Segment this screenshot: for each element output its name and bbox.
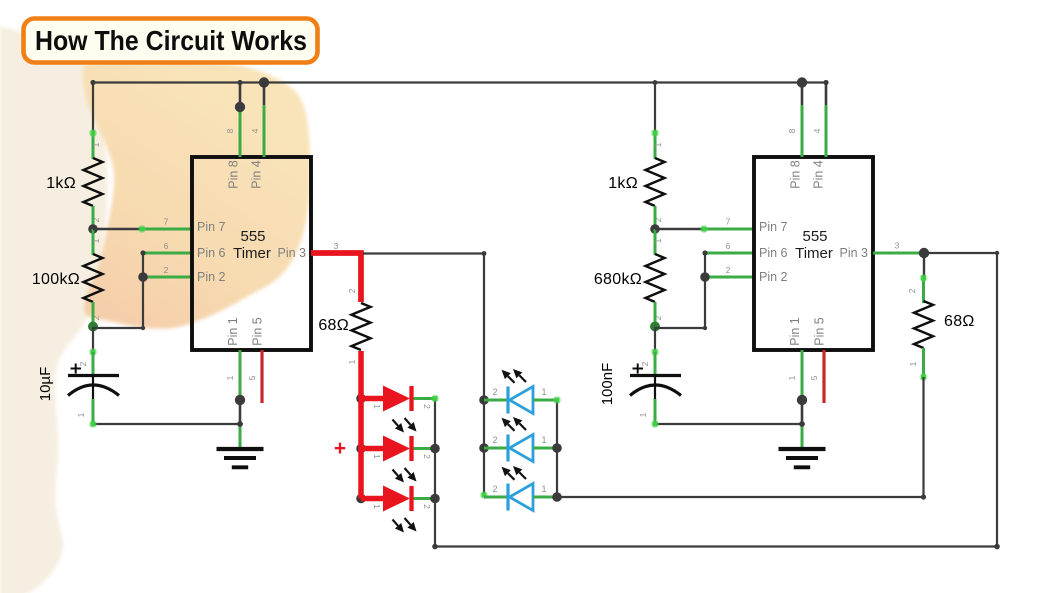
resistor 1k&#937; right	[646, 158, 665, 206]
wire pin5 stub left	[260, 350, 263, 403]
node cathode row3	[430, 494, 440, 504]
wire 1k to junction right	[654, 206, 657, 230]
svg-text:555: 555	[240, 228, 265, 245]
svg-text:Pin 2: Pin 2	[759, 270, 788, 284]
wire junction to R2 left	[92, 229, 95, 255]
resistor 68&#937; right pin numbers	[907, 288, 918, 366]
svg-text:4: 4	[250, 128, 260, 133]
node cap junction right	[650, 322, 660, 332]
wire node to capacitor left	[89, 327, 97, 375]
svg-text:680kΩ: 680kΩ	[594, 271, 642, 288]
wire V+ top rail	[93, 81, 827, 83]
node pin1 left	[235, 395, 245, 405]
svg-text:4: 4	[812, 128, 822, 133]
node cathode row2	[430, 444, 440, 454]
node rail supply tap right	[653, 80, 658, 85]
wire R2 to cap node left	[92, 302, 95, 327]
svg-text:Pin 2: Pin 2	[197, 270, 226, 284]
svg-text:1: 1	[638, 412, 648, 417]
svg-text:Pin 7: Pin 7	[759, 220, 788, 234]
capacitor 10&#181;F left pin numbers	[76, 361, 88, 417]
svg-text:555: 555	[802, 228, 827, 245]
node LED anode row2	[356, 444, 366, 454]
node pin2 tap left	[138, 272, 148, 282]
wire LED cathode bus	[431, 395, 439, 547]
svg-text:1: 1	[653, 238, 663, 243]
label IC 555 Timer left	[233, 228, 271, 262]
svg-text:3: 3	[334, 241, 339, 251]
svg-text:Pin 5: Pin 5	[251, 317, 265, 346]
svg-text:7: 7	[164, 217, 169, 227]
background orange blob	[83, 61, 310, 329]
LED D1 pin numbers	[372, 404, 432, 409]
LED D5 emission arrows	[502, 417, 527, 431]
LED D1 red	[361, 386, 435, 412]
wire pin3 output right	[873, 252, 997, 255]
node rail left corner	[90, 80, 95, 85]
svg-text:2: 2	[726, 265, 731, 275]
wire pin4 left	[263, 83, 266, 158]
svg-text:2: 2	[78, 361, 88, 366]
LED D3 pin numbers	[372, 504, 432, 509]
wire pin6 right	[705, 252, 754, 255]
node far right bottom	[994, 544, 1000, 550]
svg-text:1: 1	[76, 412, 86, 417]
wire pin1 to ground right	[801, 350, 804, 449]
wire supply drop left	[89, 83, 97, 160]
svg-text:+: +	[334, 437, 346, 460]
node tap bus corner left	[141, 326, 145, 330]
svg-text:2: 2	[422, 404, 432, 409]
svg-text:2: 2	[422, 504, 432, 509]
svg-text:3: 3	[895, 241, 900, 251]
capacitor 100nF right	[630, 364, 681, 400]
svg-text:1kΩ: 1kΩ	[608, 175, 638, 192]
resistor 68&#937; left	[352, 303, 371, 350]
svg-text:Pin 6: Pin 6	[197, 246, 226, 260]
wire capacitor to ground rail left	[89, 399, 240, 428]
background cream band left	[0, 26, 108, 593]
wire pin4 right	[825, 83, 828, 158]
svg-text:2: 2	[422, 454, 432, 459]
svg-text:How The Circuit Works: How The Circuit Works	[35, 25, 307, 56]
svg-text:1: 1	[541, 435, 546, 445]
wire R2 to cap node right	[654, 302, 657, 327]
svg-text:Pin 6: Pin 6	[759, 246, 788, 260]
wire pin8 left	[239, 83, 242, 158]
node pin6 tap left	[140, 250, 145, 255]
node blue cathode row3	[552, 492, 562, 502]
svg-text:Pin 4: Pin 4	[812, 160, 826, 189]
label IC 555 Timer right	[795, 228, 833, 262]
ground left	[217, 449, 264, 467]
wire junction to R2 right	[654, 229, 657, 255]
svg-text:2: 2	[640, 361, 650, 366]
svg-text:1kΩ: 1kΩ	[46, 175, 76, 192]
svg-text:1: 1	[653, 142, 663, 147]
svg-text:Pin 1: Pin 1	[788, 317, 802, 346]
resistor 100k&#937; left	[84, 254, 103, 302]
svg-text:5: 5	[247, 375, 257, 380]
svg-text:1: 1	[372, 504, 382, 509]
node 68 ohm right bottom corner	[921, 494, 926, 499]
wire pin7 right	[655, 225, 754, 233]
wire pin2/pin6 tap bus right	[655, 253, 705, 328]
svg-text:6: 6	[726, 241, 731, 251]
wire 68 ohm right to blue cathodes	[920, 348, 928, 497]
svg-text:1: 1	[91, 142, 101, 147]
wire blue cathodes to right 68 ohm	[557, 496, 924, 498]
wire pin2/pin6 tap bus left	[93, 253, 143, 328]
resistor 680k&#937; right	[646, 254, 665, 302]
svg-text:2: 2	[347, 288, 357, 293]
svg-text:100kΩ: 100kΩ	[32, 271, 80, 288]
svg-text:68Ω: 68Ω	[318, 317, 349, 334]
wire blue anode bus	[480, 254, 488, 500]
svg-text:2: 2	[492, 435, 497, 445]
svg-text:2: 2	[492, 484, 497, 494]
LED D2 red	[361, 436, 435, 462]
node rail pin8 tap right	[797, 77, 807, 87]
LED D4 blue	[484, 387, 557, 414]
resistor 100k&#937; left pin numbers	[91, 238, 101, 320]
node blue bus top	[482, 251, 487, 256]
svg-text:1: 1	[347, 359, 357, 364]
svg-text:7: 7	[726, 217, 731, 227]
node rail pin4 right	[823, 80, 828, 85]
resistor 680k&#937; right pin numbers	[653, 238, 663, 320]
resistor 1k&#937; left	[84, 158, 103, 206]
capacitor 10&#181;F left	[68, 364, 119, 400]
svg-text:Pin 4: Pin 4	[250, 160, 264, 189]
wire supply drop right	[651, 83, 659, 160]
wire pin3 output left	[311, 253, 361, 302]
wire pin3 to blue anode bus	[363, 252, 484, 254]
IC 555 timer left	[192, 157, 311, 350]
LED D4 emission arrows	[502, 369, 527, 383]
node pin2 tap right	[700, 272, 710, 282]
svg-text:Pin 7: Pin 7	[197, 220, 226, 234]
wire node to capacitor right	[651, 327, 659, 375]
resistor 68&#937; left pin numbers	[347, 288, 357, 364]
svg-text:1: 1	[541, 387, 546, 397]
wire pin2 right	[705, 276, 754, 279]
LED D3 emission arrows	[393, 518, 417, 533]
node cap junction left	[88, 322, 98, 332]
wire pin7 left	[93, 225, 192, 233]
wire LED anode bus	[358, 351, 364, 499]
LED D2 emission arrows	[393, 468, 417, 483]
node tap bus corner right	[703, 326, 707, 330]
node pin3 junction right	[919, 248, 929, 258]
node ground rail tap left	[237, 421, 243, 427]
node ground rail tap right	[799, 421, 805, 427]
svg-text:1: 1	[541, 484, 546, 494]
svg-text:2: 2	[164, 265, 169, 275]
svg-text:Timer: Timer	[233, 245, 271, 262]
svg-text:1: 1	[91, 238, 101, 243]
LED D5 blue	[484, 435, 557, 462]
LED D2 pin numbers	[372, 454, 432, 459]
node divider junction right	[650, 224, 660, 234]
svg-text:Timer: Timer	[795, 245, 833, 262]
node rail pin4 left	[259, 77, 269, 87]
svg-text:1: 1	[372, 454, 382, 459]
wire capacitor to ground rail right	[651, 399, 802, 428]
node pin8 junction left	[235, 102, 245, 112]
svg-text:8: 8	[787, 128, 797, 133]
LED D4 pin numbers	[492, 387, 546, 397]
svg-text:6: 6	[164, 241, 169, 251]
resistor 68&#937; right	[914, 301, 933, 348]
node pin6 tap right	[702, 250, 707, 255]
node far right top corner	[995, 251, 999, 255]
svg-text:1: 1	[372, 404, 382, 409]
node divider junction left	[88, 224, 98, 234]
svg-text:Pin 8: Pin 8	[789, 160, 803, 189]
svg-text:8: 8	[225, 128, 235, 133]
node cathode bottom	[432, 544, 438, 550]
node blue anode row1	[479, 395, 489, 405]
wire far right drop	[996, 253, 998, 547]
capacitor 100nF right pin numbers	[638, 361, 650, 417]
wire pin6 left	[143, 252, 192, 255]
resistor 1k&#937; left pin numbers	[91, 142, 101, 222]
wire bottom return	[435, 545, 997, 547]
node blue cathode row2	[552, 443, 562, 453]
wire pin5 stub right	[822, 350, 825, 403]
node LED anode row1	[356, 394, 366, 404]
svg-text:1: 1	[908, 361, 918, 366]
ground right	[779, 449, 826, 467]
svg-text:Pin 8: Pin 8	[227, 160, 241, 189]
resistor 1k&#937; right pin numbers	[653, 142, 663, 222]
svg-text:1: 1	[787, 375, 797, 380]
wire pin1 to ground left	[239, 350, 242, 449]
LED D1 emission arrows	[393, 418, 417, 433]
svg-text:1: 1	[225, 375, 235, 380]
LED D6 pin numbers	[492, 484, 546, 494]
LED D6 blue	[484, 484, 557, 511]
wire 1k to junction left	[92, 206, 95, 230]
node blue anode row2	[479, 443, 489, 453]
title box	[24, 19, 318, 63]
wire pin8 right	[801, 83, 804, 158]
svg-text:5: 5	[809, 375, 819, 380]
svg-text:2: 2	[492, 387, 497, 397]
node LED anode row3	[356, 494, 366, 504]
LED D5 pin numbers	[492, 435, 546, 445]
node pin1 right	[797, 395, 807, 405]
LED D3 red	[361, 486, 435, 512]
LED D6 emission arrows	[502, 466, 527, 480]
node rail pin8 tap left	[237, 80, 242, 85]
svg-text:Pin 1: Pin 1	[226, 317, 240, 346]
IC 555 timer right	[754, 157, 873, 350]
svg-text:100nF: 100nF	[599, 363, 616, 406]
svg-text:10µF: 10µF	[37, 367, 54, 402]
wire junction to 68 ohm right	[920, 253, 928, 303]
svg-text:68Ω: 68Ω	[944, 313, 975, 330]
svg-text:2: 2	[907, 288, 917, 293]
svg-text:Pin 3: Pin 3	[840, 246, 869, 260]
wire pin2 left	[143, 276, 192, 279]
svg-text:Pin 5: Pin 5	[813, 317, 827, 346]
wire blue cathode bus	[553, 396, 561, 497]
svg-text:Pin 3: Pin 3	[278, 246, 307, 260]
